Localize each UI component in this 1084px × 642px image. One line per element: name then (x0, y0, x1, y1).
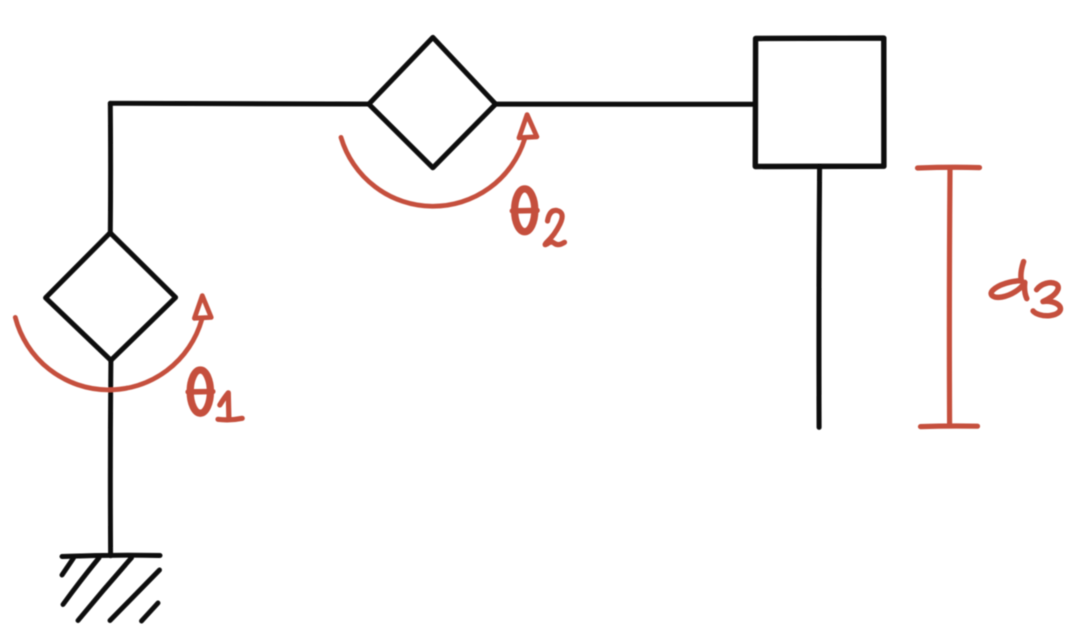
prismatic joint box (755, 38, 884, 166)
ground (62, 555, 160, 621)
theta2 label (512, 189, 564, 245)
wire rod below box (816, 167, 822, 428)
theta2 arrowhead (519, 115, 537, 138)
revolute joint 2 (diamond) (369, 37, 496, 167)
revolute joint 1 (diamond) (46, 233, 176, 360)
d3 dimension line (918, 167, 980, 426)
d3 label (991, 262, 1060, 316)
wire link2 horizontal (110, 101, 369, 107)
theta1 arrowhead (194, 296, 211, 319)
theta1 label (188, 370, 242, 420)
theta2 arc (341, 137, 525, 206)
wire link3 horizontal (496, 102, 756, 107)
wire link1 base to joint1 (108, 361, 113, 556)
wire link2 vertical (108, 103, 113, 233)
theta1 arc (15, 317, 202, 389)
